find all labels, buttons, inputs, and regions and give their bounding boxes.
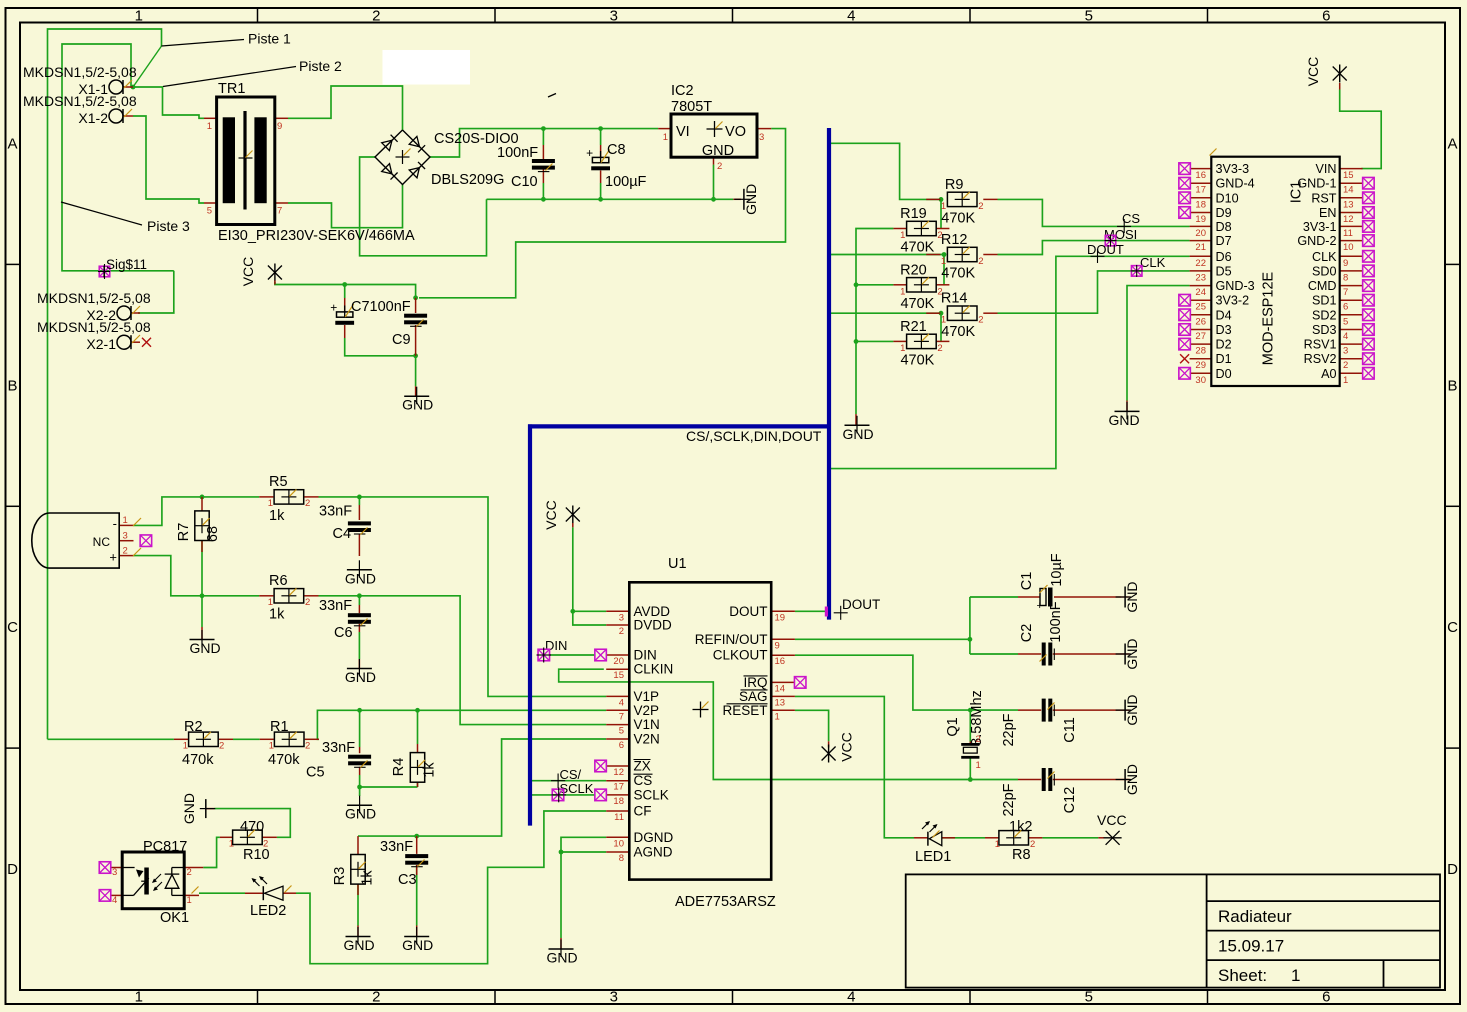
svg-text:GND-4: GND-4 (1216, 177, 1255, 191)
svg-text:MKDSN1,5/2-5,08: MKDSN1,5/2-5,08 (23, 93, 137, 109)
wire R6 out to C6/V1N (319, 596, 607, 725)
svg-text:2: 2 (219, 741, 224, 752)
node R20 pin1 (854, 282, 859, 287)
wire C1 row (970, 596, 1018, 598)
svg-text:4: 4 (1343, 331, 1348, 342)
svg-text:MKDSN1,5/2-5,08: MKDSN1,5/2-5,08 (37, 290, 151, 306)
resistor R14 (941, 291, 984, 341)
svg-text:V1N: V1N (634, 717, 660, 732)
connector X1-1 (23, 64, 137, 97)
wire R4 top stub (417, 710, 419, 744)
svg-text:470K: 470K (941, 266, 975, 282)
svg-text:C3: C3 (398, 872, 417, 888)
svg-text:470K: 470K (900, 296, 934, 312)
ground C2 (1124, 644, 1126, 665)
ground C5/R4 (347, 804, 372, 806)
svg-text:+: + (586, 146, 593, 160)
capacitor C4 (319, 504, 371, 543)
svg-text:VIN: VIN (1316, 162, 1337, 176)
wire Piste1 diagonal (133, 46, 162, 87)
svg-text:MKDSN1,5/2-5,08: MKDSN1,5/2-5,08 (37, 319, 151, 335)
bus CS/,SCLK,DIN,DOUT (528, 128, 831, 826)
svg-text:GND: GND (345, 806, 376, 822)
white patch (383, 50, 471, 85)
wire REFIN/OUT to C1/C2 (795, 638, 970, 640)
svg-text:C12: C12 (1062, 787, 1078, 814)
svg-text:R8: R8 (1012, 847, 1031, 863)
svg-text:1: 1 (775, 711, 780, 722)
svg-text:C9: C9 (392, 332, 411, 348)
svg-text:REFIN/OUT: REFIN/OUT (695, 632, 768, 647)
svg-text:+: + (1037, 600, 1043, 612)
ground C11 (1124, 700, 1126, 721)
svg-text:3V3-3: 3V3-3 (1216, 162, 1250, 176)
wire bridge minus to GND rail (360, 157, 487, 256)
svg-text:1: 1 (229, 839, 234, 850)
svg-text:DOUT: DOUT (842, 597, 880, 612)
wire CLKOUT to C11 row (795, 655, 1018, 710)
svg-text:C8: C8 (607, 142, 626, 158)
svg-text:EN: EN (1319, 206, 1337, 220)
leader Piste 2 (163, 58, 342, 87)
wire U1 DOUT to bus (795, 610, 827, 612)
svg-text:VCC: VCC (240, 257, 256, 287)
svg-text:1: 1 (900, 286, 905, 297)
svg-text:D2: D2 (1216, 338, 1232, 352)
svg-text:GND: GND (345, 570, 376, 586)
ground R3 (346, 936, 371, 938)
svg-text:CS/: CS/ (560, 767, 582, 782)
svg-text:NC: NC (93, 535, 111, 549)
svg-text:DGND: DGND (634, 830, 674, 845)
svg-text:100µF: 100µF (605, 174, 647, 190)
ground C3 (404, 936, 429, 938)
svg-text:Sheet:: Sheet: (1218, 966, 1267, 985)
svg-text:SCLK: SCLK (560, 781, 594, 796)
svg-text:LED1: LED1 (915, 849, 951, 865)
svg-text:AGND: AGND (634, 845, 673, 860)
svg-text:1: 1 (900, 343, 905, 354)
svg-text:VCC: VCC (839, 732, 855, 762)
svg-text:1: 1 (976, 760, 981, 771)
svg-text:2: 2 (1343, 360, 1348, 371)
svg-text:IC1: IC1 (1289, 181, 1305, 204)
no-connect ZX (595, 760, 607, 772)
capacitor C2 (1019, 601, 1064, 665)
svg-text:10: 10 (613, 838, 624, 849)
resistor R10 (229, 819, 270, 863)
svg-text:12: 12 (1343, 214, 1354, 225)
svg-text:R19: R19 (900, 206, 927, 222)
svg-text:22: 22 (1195, 258, 1206, 269)
pin stubs (dark red) (111, 83, 1363, 949)
wire mains to R2 (48, 738, 174, 740)
capacitor C10 (497, 145, 555, 190)
svg-text:CS: CS (634, 773, 653, 788)
svg-text:8: 8 (619, 853, 624, 864)
node C9 bottom (413, 353, 418, 358)
resistor R7 (176, 511, 221, 542)
svg-text:3: 3 (610, 989, 618, 1006)
resistor R4 (391, 753, 438, 783)
wire OK1 pin2 up to R10 (203, 837, 220, 867)
svg-text:19: 19 (775, 612, 786, 623)
svg-text:D7: D7 (1216, 234, 1232, 248)
no-connect IRQ (794, 677, 806, 689)
svg-text:D3: D3 (1216, 323, 1232, 337)
svg-text:5: 5 (619, 726, 624, 737)
label CS/ (551, 767, 582, 788)
svg-text:C11: C11 (1062, 717, 1078, 743)
svg-text:Piste 3: Piste 3 (147, 218, 190, 234)
svg-text:DVDD: DVDD (634, 618, 673, 633)
svg-text:5: 5 (1343, 316, 1348, 327)
svg-text:GND: GND (402, 937, 433, 953)
svg-text:13: 13 (1343, 199, 1354, 210)
svg-text:R6: R6 (269, 573, 288, 589)
svg-text:C4: C4 (333, 526, 352, 542)
node R21 pin1 (854, 339, 859, 344)
ground R-network (845, 424, 870, 426)
svg-text:14: 14 (1343, 185, 1354, 196)
svg-text:R1: R1 (270, 719, 289, 735)
svg-text:R12: R12 (941, 232, 968, 248)
wire X1-1 to TR1 pin1 (133, 87, 204, 118)
svg-text:VCC: VCC (1305, 57, 1321, 87)
svg-text:13: 13 (775, 697, 786, 708)
resistor R5 (268, 474, 311, 524)
wire C9 bottom to GND (415, 356, 417, 387)
wire Sig$11 to X2-2 (138, 271, 174, 313)
wire R12.1 to R20.2 (943, 255, 945, 285)
svg-text:LED2: LED2 (250, 903, 286, 919)
svg-text:100nF: 100nF (1048, 601, 1064, 642)
wire C7 C9 bottom rail (345, 351, 416, 356)
wire LED2 to CF net (296, 811, 606, 964)
svg-text:EI30_PRI230V-SEK6V/466MA: EI30_PRI230V-SEK6V/466MA (218, 228, 415, 244)
svg-text:V2P: V2P (634, 703, 660, 718)
svg-text:6: 6 (1343, 302, 1348, 313)
svg-text:R5: R5 (269, 474, 288, 490)
svg-text:R4: R4 (391, 758, 407, 777)
wire IC2 VO to 5V rail (419, 129, 786, 298)
svg-text:A: A (7, 135, 17, 152)
svg-text:GND: GND (402, 397, 433, 413)
svg-text:1: 1 (183, 741, 188, 752)
svg-text:CF: CF (634, 804, 652, 819)
svg-text:29: 29 (1195, 360, 1206, 371)
svg-text:2: 2 (123, 546, 128, 557)
svg-text:DBLS209G: DBLS209G (431, 172, 504, 188)
capacitor C1 (1019, 553, 1065, 612)
no-connect OK1 (99, 862, 111, 901)
resistor R8 (995, 819, 1036, 863)
svg-text:GND: GND (345, 669, 376, 685)
svg-text:D4: D4 (1216, 308, 1232, 322)
leader Piste 1 (162, 31, 292, 47)
svg-text:Q1: Q1 (945, 717, 961, 736)
wire NG pin2 to R6 row (134, 556, 260, 596)
svg-text:1: 1 (941, 315, 946, 326)
resistor R3 (332, 855, 376, 886)
resistor R20 (900, 262, 943, 312)
svg-text:Radiateur: Radiateur (1218, 907, 1292, 926)
svg-text:R7: R7 (176, 523, 192, 542)
svg-text:1: 1 (1291, 966, 1300, 985)
svg-text:3V3-1: 3V3-1 (1303, 220, 1337, 234)
svg-text:D: D (1447, 861, 1458, 878)
node REFIN junction (968, 637, 973, 642)
svg-text:1: 1 (941, 201, 946, 212)
svg-text:GND: GND (546, 950, 577, 966)
svg-text:D1: D1 (1216, 352, 1232, 366)
svg-text:PC817: PC817 (143, 839, 187, 855)
svg-text:Piste 1: Piste 1 (248, 31, 291, 47)
node C3 top (414, 834, 419, 839)
node R7 top (200, 495, 205, 500)
svg-text:MOD-ESP12E: MOD-ESP12E (1261, 271, 1277, 365)
node C8 bottom (598, 197, 603, 202)
svg-text:1: 1 (268, 498, 273, 509)
capacitor C12 (1001, 768, 1078, 817)
wire CS from bus (532, 780, 606, 782)
svg-text:GND: GND (702, 143, 734, 159)
node R14 pin1 (939, 311, 944, 316)
optocoupler OK1 PC817 (112, 839, 199, 926)
capacitor C5 (306, 740, 371, 781)
connector X1-2 (23, 93, 137, 126)
svg-text:16: 16 (775, 656, 786, 667)
wire R3 bottom to GND (357, 884, 359, 925)
node R4 top (415, 708, 420, 713)
svg-text:1: 1 (268, 597, 273, 608)
svg-text:21: 21 (1195, 242, 1206, 253)
svg-text:SAG: SAG (739, 689, 768, 704)
svg-text:DOUT: DOUT (729, 604, 767, 619)
svg-text:5: 5 (1085, 8, 1093, 25)
svg-text:GND: GND (1124, 695, 1140, 726)
svg-text:+: + (330, 301, 337, 315)
svg-text:4: 4 (847, 989, 855, 1006)
svg-text:D5: D5 (1216, 264, 1232, 278)
power VCC R8 (1104, 837, 1122, 839)
svg-text:2: 2 (187, 867, 192, 878)
node X1-1 junction (131, 85, 136, 90)
node C10 bottom (541, 197, 546, 202)
leader Piste 3 (61, 202, 190, 234)
svg-text:33nF: 33nF (322, 740, 355, 756)
svg-text:D9: D9 (1216, 206, 1232, 220)
svg-text:SD2: SD2 (1312, 308, 1337, 322)
title block (906, 874, 1440, 987)
svg-text:C6: C6 (334, 625, 353, 641)
svg-text:VCC: VCC (543, 500, 559, 530)
wire X1-2 to TR1 pin5 (133, 116, 204, 203)
svg-text:OK1: OK1 (160, 910, 189, 926)
label DOUT u1 (834, 597, 881, 620)
svg-text:22pF: 22pF (1001, 783, 1017, 816)
ground C4 (347, 569, 372, 571)
svg-text:2: 2 (1030, 839, 1035, 850)
svg-text:2: 2 (305, 741, 310, 752)
resistor R6 (268, 573, 311, 623)
svg-text:1: 1 (207, 121, 212, 132)
wire R14.1 to R21.2 (940, 313, 942, 341)
svg-text:1: 1 (269, 741, 274, 752)
wire R10 out to GND loop (214, 809, 290, 838)
svg-text:26: 26 (1195, 316, 1206, 327)
svg-text:2: 2 (978, 256, 983, 267)
svg-text:470k: 470k (268, 752, 300, 768)
svg-text:R3: R3 (332, 867, 348, 886)
node C5 bottom (357, 785, 362, 790)
node AVDD junction (570, 609, 575, 614)
svg-text:9: 9 (277, 121, 282, 132)
capacitor C6 (319, 598, 371, 641)
ground R7 (190, 639, 215, 641)
svg-text:15: 15 (1343, 170, 1354, 181)
bridge rectifier DBLS209G (375, 130, 519, 188)
wire TR1 pin7 to bridge bottom (288, 185, 403, 228)
svg-text:VO: VO (725, 124, 746, 140)
svg-text:5: 5 (207, 206, 212, 217)
power VCC U1 (572, 506, 574, 524)
wire VCC to ESP VIN (1340, 90, 1382, 169)
svg-text:28: 28 (1195, 346, 1206, 357)
wire C2 row (970, 653, 1018, 655)
svg-text:3: 3 (112, 867, 117, 878)
svg-text:15: 15 (613, 670, 624, 681)
node C4 top (357, 495, 362, 500)
svg-text:CLK: CLK (1312, 250, 1337, 264)
svg-text:1: 1 (135, 989, 143, 1006)
svg-text:9: 9 (1343, 258, 1348, 269)
svg-text:470K: 470K (900, 352, 934, 368)
svg-text:ADE7753ARSZ: ADE7753ARSZ (675, 894, 776, 910)
svg-text:1: 1 (187, 895, 192, 906)
svg-text:GND: GND (1124, 764, 1140, 795)
svg-text:470K: 470K (941, 324, 975, 340)
node C7 top (342, 282, 347, 287)
wire R14 out to ESP D5 (CLK) (998, 271, 1190, 313)
svg-text:GND: GND (189, 640, 220, 656)
wire DGND to GND (561, 837, 606, 938)
label DIN (537, 638, 607, 663)
power VCC ESP (1339, 65, 1341, 83)
svg-text:5: 5 (1085, 989, 1093, 1006)
voltage regulator IC2 7805T (663, 83, 765, 172)
svg-text:X2-1: X2-1 (86, 336, 116, 352)
transformer TR1 (207, 81, 415, 244)
svg-text:33nF: 33nF (319, 598, 352, 614)
wire C5 top stub (359, 710, 361, 747)
no-connect NG (140, 535, 152, 547)
wire DIN label to pin (549, 654, 595, 656)
svg-text:18: 18 (1195, 199, 1206, 210)
svg-text:GND: GND (1124, 638, 1140, 669)
svg-text:C2: C2 (1019, 624, 1035, 643)
svg-text:RST: RST (1311, 191, 1336, 205)
resistor R1 (268, 719, 310, 768)
svg-text:Sig$11: Sig$11 (106, 257, 147, 272)
wire R12 out to ESP D7 (MOSI) (998, 241, 1190, 255)
crystal Q1 (945, 690, 985, 771)
connector X2-1 (37, 319, 151, 352)
node R12 pin1 (942, 252, 947, 257)
wire R1 out up to V2P row (317, 710, 606, 739)
svg-text:20: 20 (1195, 228, 1206, 239)
svg-text:1: 1 (1343, 375, 1348, 386)
svg-text:TR1: TR1 (218, 81, 245, 97)
svg-text:1: 1 (900, 230, 905, 241)
node IC2 GND junction (711, 197, 716, 202)
svg-text:1: 1 (995, 839, 1000, 850)
capacitor C7 (330, 299, 411, 325)
wire R19/R20/R21 ground bus (856, 229, 893, 415)
svg-text:D6: D6 (1216, 250, 1232, 264)
capacitor C11 (1001, 699, 1078, 747)
svg-text:ZX: ZX (634, 759, 651, 774)
svg-text:33nF: 33nF (319, 504, 352, 520)
wire C1/C2 tie (969, 597, 971, 654)
svg-text:DOUT: DOUT (1087, 242, 1124, 257)
label CS (1117, 211, 1140, 233)
wire SAG to LED1 (795, 696, 914, 837)
wire R8 to VCC (1042, 837, 1098, 839)
wire C5 bottom to R4 bottom and GND (360, 787, 418, 796)
svg-text:C: C (1447, 619, 1458, 636)
svg-text:CS: CS (1122, 211, 1140, 226)
wire C12 row to plates (970, 779, 1018, 781)
svg-text:A: A (1447, 135, 1457, 152)
svg-text:7: 7 (1343, 287, 1348, 298)
svg-text:V1P: V1P (634, 689, 660, 704)
svg-text:3: 3 (123, 531, 128, 542)
svg-text:R14: R14 (941, 291, 968, 307)
resistor R9 (941, 177, 984, 227)
svg-text:CMD: CMD (1308, 279, 1337, 293)
svg-text:1k: 1k (269, 607, 285, 623)
wire bridge plus to VI rail (430, 129, 658, 157)
node Q1 bottom / C12 row (968, 777, 973, 782)
node Q1 top (968, 708, 973, 713)
svg-text:C7100nF: C7100nF (351, 299, 411, 315)
svg-text:GND-3: GND-3 (1216, 279, 1255, 293)
svg-text:GND: GND (181, 793, 197, 824)
svg-text:470K: 470K (941, 210, 975, 226)
svg-text:17: 17 (1195, 185, 1206, 196)
svg-text:30: 30 (1195, 375, 1206, 386)
svg-text:6: 6 (619, 740, 624, 751)
label DOUT esp (1087, 242, 1124, 263)
svg-text:CLKOUT: CLKOUT (713, 648, 768, 663)
wire C4 top stub down (358, 497, 360, 505)
wire ESP GND-3 to GND (1127, 286, 1190, 401)
svg-text:2: 2 (717, 161, 722, 172)
ground R10 (205, 799, 207, 818)
svg-text:VCC: VCC (1097, 812, 1127, 828)
wire LED1 to R8 (942, 837, 985, 839)
svg-text:15.09.17: 15.09.17 (1218, 937, 1284, 956)
LED LED2 (250, 876, 292, 919)
svg-text:IC2: IC2 (671, 83, 694, 99)
node R9 pin1 (939, 197, 944, 202)
wire R9 out to ESP D8 (CS) (998, 199, 1190, 226)
svg-text:6: 6 (1322, 8, 1330, 25)
node C5 top (357, 708, 362, 713)
wire R9.1 to R19.2 (940, 199, 942, 228)
svg-text:GND: GND (1124, 581, 1140, 612)
